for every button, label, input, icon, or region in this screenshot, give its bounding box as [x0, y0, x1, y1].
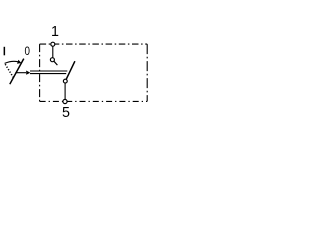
wire terminal 1 to fixed contact: [52, 46, 54, 57]
actuator lever (position 0): [10, 59, 24, 85]
terminal 5: [63, 99, 67, 103]
svg-text:1: 1: [51, 24, 59, 40]
enclosure left edge (dash-dot): [39, 44, 41, 101]
terminal 1: [51, 42, 55, 46]
linkage shaft from actuator: [15, 72, 26, 74]
enclosure right edge (dash-dot): [146, 44, 148, 101]
travel arc arrowhead: [17, 60, 21, 64]
enclosure bottom edge (dash-dot): [40, 100, 148, 102]
mechanical linkage lower line: [30, 73, 66, 75]
svg-text:0: 0: [24, 45, 29, 58]
mechanical linkage upper line: [30, 70, 67, 72]
actuation travel arc: [5, 61, 19, 63]
linkage arrowhead: [26, 71, 30, 75]
position label I: [4, 47, 6, 56]
moving contact lever: [66, 61, 75, 80]
fixed contact blade: [54, 61, 57, 65]
svg-text:5: 5: [62, 105, 70, 121]
wire fixed contact to terminal 5: [64, 83, 66, 99]
actuator lever alternate position (dotted, position I): [5, 63, 14, 77]
fixed contact (terminal 1 side): [50, 58, 54, 62]
enclosure top edge (dash-dot): [40, 43, 148, 45]
fixed contact (terminal 5 side): [63, 79, 67, 83]
